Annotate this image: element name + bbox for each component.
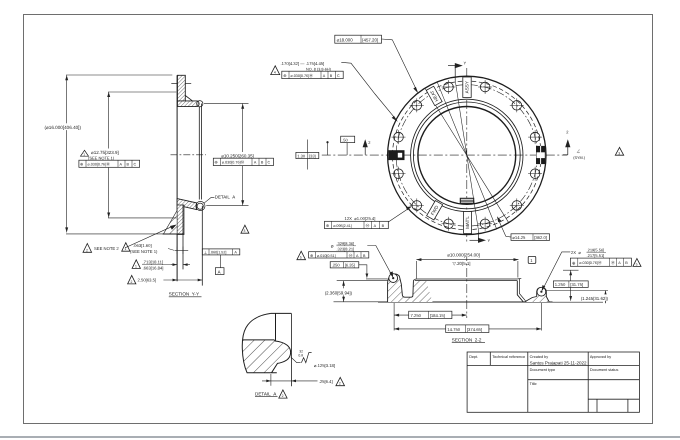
- right slot (0deg): [536, 146, 545, 164]
- svg-text:(SEE NOTE 1): (SEE NOTE 1): [130, 249, 158, 254]
- DETAIL A label: [255, 390, 287, 398]
- SEE NOTE 2 flag: [83, 225, 177, 253]
- dim 12.75 vertical line: [107, 92, 176, 218]
- svg-text:Y: Y: [464, 61, 467, 66]
- svg-text:2.50[63.5]: 2.50[63.5]: [138, 277, 157, 282]
- svg-text:ℒ: ℒ: [577, 149, 581, 154]
- ASSY marker box (90deg): [463, 77, 471, 98]
- bottom stub (hatched): [177, 205, 184, 235]
- DETAIL A leader: [204, 197, 215, 203]
- svg-text:2: 2: [368, 140, 371, 145]
- svg-text:⊕: ⊕: [310, 253, 313, 258]
- svg-text:⌀10.000[254.00]: ⌀10.000[254.00]: [447, 252, 480, 257]
- svg-text:.50: .50: [342, 137, 348, 142]
- small boxed dim left of circle: [296, 140, 319, 170]
- svg-text:.217[5.51]: .217[5.51]: [587, 253, 605, 258]
- dim 10.250 vertical line: [204, 103, 249, 205]
- svg-text:[184.15]: [184.15]: [430, 313, 445, 318]
- vertical centerline: [466, 68, 468, 244]
- svg-text:(1.245[31.62]): (1.245[31.62]): [581, 296, 609, 301]
- svg-text:⊕: ⊕: [572, 260, 576, 265]
- web top double line: [416, 278, 518, 280]
- svg-text:.170[4.32] — .175[4.45]: .170[4.32] — .175[4.45]: [281, 61, 325, 66]
- hole 225deg: [412, 201, 422, 211]
- svg-text:⊕: ⊕: [80, 162, 83, 167]
- right hole: [537, 287, 546, 296]
- web right end wall: [517, 281, 523, 302]
- svg-text:B: B: [625, 261, 628, 265]
- svg-text:MAT'L: MAT'L: [465, 216, 470, 229]
- svg-text:⌀.030[0.76]Ⓜ: ⌀.030[0.76]Ⓜ: [579, 260, 602, 265]
- left foot outline: [388, 274, 414, 302]
- (2.360) height dim: [324, 281, 388, 302]
- svg-text:Document status: Document status: [590, 368, 619, 372]
- svg-text:(SYM.): (SYM.): [573, 156, 586, 160]
- svg-text:Technical reference: Technical reference: [492, 355, 525, 359]
- svg-text:⌀.125[3.18]: ⌀.125[3.18]: [314, 363, 335, 368]
- inner lip line bottom: [182, 205, 184, 270]
- small datum box after dim: [528, 256, 536, 263]
- svg-text:Y: Y: [488, 238, 491, 243]
- svg-text:1: 1: [135, 264, 137, 268]
- horizontal centerline: [322, 154, 567, 156]
- SECTION 2-2 label: [452, 337, 485, 342]
- bottom edge of flare: [163, 233, 185, 235]
- svg-text:Title: Title: [530, 382, 537, 386]
- svg-text:.713[18.11]: .713[18.11]: [143, 259, 164, 264]
- svg-text:⊥: ⊥: [204, 250, 208, 255]
- small boxed dim above centerline: [341, 136, 355, 155]
- 12X dia 1.00 callout: [325, 206, 413, 228]
- bottom window strip: [0, 436, 680, 438]
- left hole: [389, 274, 398, 283]
- MATL marker box (270deg): [464, 212, 472, 234]
- view centerline: [171, 154, 207, 156]
- svg-text:B: B: [382, 224, 385, 228]
- bore circle: [418, 106, 516, 204]
- svg-text:A: A: [218, 270, 221, 275]
- svg-text:4: 4: [274, 71, 276, 75]
- svg-text:⌀12.75[323.9]: ⌀12.75[323.9]: [91, 150, 119, 155]
- svg-text:.063[1.60]: .063[1.60]: [133, 243, 152, 248]
- inner rim circle 2: [413, 102, 520, 209]
- section cut fan lines through center: [455, 81, 478, 232]
- svg-text:[362.0]: [362.0]: [534, 235, 547, 240]
- section 2 arrow right: [563, 130, 570, 155]
- hole 105deg: [444, 82, 454, 92]
- right edge extended: [290, 313, 292, 386]
- svg-text:⌀.095[2.41]: ⌀.095[2.41]: [333, 224, 352, 228]
- svg-text:2X ⌀: 2X ⌀: [571, 250, 581, 255]
- right lower silhouette: [201, 206, 203, 286]
- svg-text:1.30: 1.30: [297, 153, 306, 158]
- .063 note + dim: [122, 243, 189, 254]
- svg-text:[31.75]: [31.75]: [570, 282, 583, 287]
- left slot (180deg): [388, 150, 404, 160]
- svg-text:Document type: Document type: [530, 368, 556, 372]
- 1.250 boxed dim right: [553, 270, 588, 301]
- svg-text:DETAIL A: DETAIL A: [255, 391, 277, 396]
- section 2 arrow left: [363, 139, 372, 155]
- svg-text:12X ⌀1.00[25.4]: 12X ⌀1.00[25.4]: [345, 216, 376, 221]
- hole 135deg: [412, 101, 422, 111]
- surface finish symbol: [291, 349, 312, 362]
- svg-text:2: 2: [86, 248, 88, 252]
- hidden circle (dashed): [393, 81, 542, 230]
- svg-text:(2.360[59.94]): (2.360[59.94]): [325, 290, 353, 295]
- hole 75deg: [480, 82, 490, 92]
- 2.50 dim: [128, 275, 203, 284]
- lone note triangle right of circle: [615, 147, 623, 155]
- 7.250 dim: [394, 303, 467, 319]
- svg-text:C: C: [268, 160, 271, 164]
- stub-foot inner fillet: [185, 96, 192, 101]
- outer circle: [388, 76, 546, 234]
- outer arc: [242, 313, 277, 372]
- SECTION Y-Y label: [169, 291, 202, 296]
- flange top foot (hatched): [177, 101, 203, 107]
- dia 10.000 groove dim: [416, 258, 518, 278]
- svg-text:⌀.030[0.76]Ⓜ: ⌀.030[0.76]Ⓜ: [291, 73, 314, 78]
- svg-text:ASSY: ASSY: [465, 81, 470, 93]
- note triangle below 10.250 dim: [241, 225, 249, 233]
- bottom flare wedge (hatched): [164, 211, 178, 234]
- svg-text:2: 2: [131, 280, 133, 284]
- hatch top edge: [243, 339, 274, 341]
- right silhouette double line: [198, 107, 200, 200]
- svg-text:1: 1: [530, 258, 533, 263]
- svg-text:Created by: Created by: [530, 355, 549, 359]
- svg-text:⊕: ⊕: [326, 223, 329, 228]
- svg-text:0.8: 0.8: [298, 354, 303, 358]
- svg-text:C: C: [134, 162, 137, 166]
- svg-text:2: 2: [566, 130, 569, 135]
- svg-text:Dept.: Dept.: [469, 355, 478, 359]
- svg-text:1.250: 1.250: [555, 282, 566, 287]
- svg-text:Ⓜ: Ⓜ: [349, 253, 353, 258]
- bolt circle centerline: [396, 85, 537, 226]
- seal bead profile: [272, 340, 291, 373]
- svg-text:.060[1.52]: .060[1.52]: [210, 251, 226, 255]
- svg-text:B: B: [330, 74, 333, 78]
- svg-text:(⌀16.000[406.40]): (⌀16.000[406.40]): [45, 125, 82, 130]
- svg-text:⌀14.25: ⌀14.25: [512, 235, 526, 240]
- svg-text:⊕: ⊕: [214, 160, 217, 165]
- svg-text:A: A: [618, 261, 621, 265]
- inner rim circle 1: [411, 99, 523, 211]
- boss ledge extension line: [546, 290, 608, 292]
- svg-text:A: A: [323, 74, 326, 78]
- dim 16.000 text: [44, 123, 91, 130]
- hole 45deg: [512, 101, 522, 111]
- svg-text:▽.20[5.1]: ▽.20[5.1]: [453, 261, 471, 266]
- right boss hatched: [524, 288, 549, 303]
- svg-text:[33]: [33]: [309, 153, 316, 158]
- dim 16.000 vertical line: [65, 75, 172, 234]
- hole 285deg: [480, 219, 490, 229]
- left callout group: dia .329/.323: [297, 241, 393, 279]
- hole 315deg: [512, 201, 522, 211]
- svg-text:B: B: [363, 254, 366, 258]
- svg-text:A: A: [356, 254, 359, 258]
- small tick with dot on centerline: [326, 141, 328, 155]
- bottom foot (hatched, sloped): [177, 199, 203, 210]
- detail A bottom dim: [262, 374, 345, 386]
- svg-text:DETAIL A: DETAIL A: [215, 195, 235, 200]
- right boss outline: [537, 288, 550, 303]
- svg-text:Approved by: Approved by: [590, 355, 611, 359]
- svg-text:2: 2: [282, 394, 284, 398]
- Y section arrow bottom: [470, 231, 491, 243]
- left silhouette line: [176, 75, 178, 281]
- svg-text:.25[6.4]: .25[6.4]: [319, 379, 333, 384]
- section centerline: [466, 252, 468, 318]
- svg-text:Santos Prajapati 25-11-2022: Santos Prajapati 25-11-2022: [530, 361, 587, 366]
- svg-text:5: 5: [300, 256, 302, 260]
- flange top stub (hatched): [177, 75, 185, 101]
- baseline: [378, 301, 553, 303]
- svg-text:A: A: [234, 251, 237, 255]
- svg-text:SECTION Y-Y: SECTION Y-Y: [169, 291, 199, 296]
- svg-text:⌀: ⌀: [331, 244, 334, 249]
- svg-text:7.250: 7.250: [411, 313, 422, 318]
- bolt hole center marks: [392, 80, 543, 231]
- svg-text:14.750: 14.750: [447, 327, 460, 332]
- 12 bolt holes: [394, 82, 540, 228]
- dim 10.250 annotation block: [213, 152, 274, 166]
- svg-text:[457.20]: [457.20]: [362, 37, 378, 42]
- left foot step to web: [413, 279, 415, 281]
- svg-text:1: 1: [125, 247, 127, 251]
- svg-text:2: 2: [339, 382, 341, 386]
- svg-text:⌀.030[0.76]Ⓜ: ⌀.030[0.76]Ⓜ: [222, 159, 245, 164]
- right callout group: 2X dia .219/.217: [542, 247, 641, 291]
- perpendicularity FCF + datum A: [202, 249, 240, 275]
- centerline symmetry note: [573, 149, 586, 160]
- top edge: [271, 312, 292, 314]
- (1.245) dim right: [580, 291, 616, 304]
- svg-text:.663[16.84]: .663[16.84]: [143, 266, 164, 271]
- svg-text:[374.65]: [374.65]: [467, 327, 482, 332]
- .713/.663 dim: [132, 259, 190, 270]
- Y section arrow top: [448, 61, 467, 81]
- svg-text:⌀.030[0.76]Ⓜ: ⌀.030[0.76]Ⓜ: [88, 161, 111, 166]
- dia 18.000 boxed callout: [335, 35, 418, 93]
- svg-text:⌀18.000: ⌀18.000: [337, 37, 354, 42]
- FWD marker box (tilted): [427, 201, 443, 220]
- 14.750 dim: [394, 303, 541, 333]
- hole 345deg: [530, 169, 540, 179]
- svg-text:5: 5: [636, 262, 638, 266]
- left foot hatched body: [388, 274, 433, 302]
- detail balloon circle: [196, 201, 205, 210]
- bottom bore tab: [460, 198, 473, 203]
- svg-text:⊕: ⊕: [283, 73, 286, 78]
- svg-text:⌀.010[0.51]: ⌀.010[0.51]: [317, 254, 336, 258]
- svg-text:Ⓜ: Ⓜ: [366, 223, 370, 228]
- svg-text:3: 3: [618, 151, 620, 155]
- hole 165deg: [394, 132, 404, 142]
- lip left edge: [275, 313, 277, 340]
- svg-text:.250: .250: [332, 263, 341, 268]
- svg-text:SEE NOTE 2: SEE NOTE 2: [94, 246, 119, 251]
- detail A outline: [242, 313, 291, 386]
- dia 14.25 boxed callout: [497, 216, 550, 240]
- svg-text:1: 1: [83, 152, 85, 156]
- svg-text:SECTION 2-2: SECTION 2-2: [452, 337, 482, 342]
- dim 12.75 annotation block: [79, 149, 141, 168]
- svg-text:A: A: [374, 224, 377, 228]
- svg-text:C: C: [337, 74, 340, 78]
- svg-text:[6.35]: [6.35]: [345, 263, 355, 268]
- svg-text:.323[8.21]: .323[8.21]: [336, 246, 354, 251]
- hole 195deg: [394, 169, 404, 179]
- svg-text:3: 3: [244, 229, 246, 233]
- HEAT marker box (tilted): [426, 86, 442, 105]
- detail A hatched body: [242, 340, 290, 373]
- .170 thread callout: [271, 61, 398, 122]
- svg-text:Ⓜ: Ⓜ: [611, 260, 615, 265]
- svg-text:⌀10.250[260.35]: ⌀10.250[260.35]: [221, 153, 254, 158]
- hole 255deg: [444, 219, 454, 229]
- hole 15deg: [530, 132, 540, 142]
- svg-text:.219[5.56]: .219[5.56]: [587, 247, 605, 252]
- svg-text:.329[8.36]: .329[8.36]: [336, 241, 354, 246]
- stub tick marks: [171, 83, 177, 85]
